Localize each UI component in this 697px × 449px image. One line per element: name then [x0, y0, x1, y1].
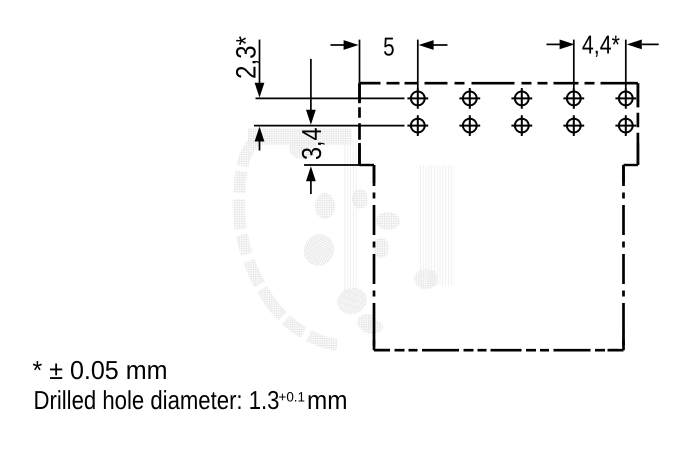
outline left step [360, 164, 375, 166]
svg-text:4,4*: 4,4* [582, 29, 620, 59]
hole C5 R1 [615, 88, 636, 109]
dimension 4,4*: left arrow [547, 40, 575, 50]
left edge extension line [359, 40, 361, 83]
hole extension line col1 [417, 40, 419, 89]
row 1 extension line [256, 97, 405, 99]
hole C5 R2 [615, 115, 636, 136]
outline top edge (phantom dashed) [360, 82, 638, 85]
watermark vertical striping [344, 140, 358, 310]
hole C1 R1 [407, 88, 428, 109]
corner solid reinforcements [360, 83, 638, 350]
watermark blobs [289, 137, 317, 159]
outline lower-left edge [373, 165, 376, 350]
dimension 2,3*: upper arrow (down) [255, 40, 265, 98]
svg-text:+0.1: +0.1 [279, 389, 306, 404]
row 2 extension line [254, 125, 405, 127]
dimension 5: left arrow [331, 40, 359, 50]
outline upper-left edge [358, 83, 361, 165]
hole C4 R2 [563, 115, 584, 136]
svg-text:mm: mm [307, 385, 348, 415]
hole C4 R1 [563, 88, 584, 109]
svg-text:Drilled hole diameter: 1.3: Drilled hole diameter: 1.3 [34, 385, 280, 415]
outline bottom edge (phantom dashed) [374, 349, 624, 352]
outline right step [624, 164, 638, 166]
hole C3 R1 [511, 88, 532, 109]
svg-text:3,4: 3,4 [296, 128, 327, 161]
drilled holes: 5 columns x 2 rows [407, 88, 636, 136]
outline lower-right edge [622, 165, 625, 350]
watermark arc band [248, 129, 352, 146]
svg-text:* ± 0.05 mm: * ± 0.05 mm [33, 355, 168, 385]
svg-text:2,3*: 2,3* [231, 36, 262, 79]
dimension 3,4: lower arrow (up) [306, 166, 316, 194]
watermark connector ghost image [239, 129, 454, 346]
svg-text:5: 5 [383, 31, 395, 61]
hole C2 R2 [459, 115, 480, 136]
dimension 5: right arrow [419, 40, 448, 50]
hole extension line col5 [625, 40, 627, 89]
step extension line [304, 164, 360, 166]
dimension 4,4*: right arrow [627, 40, 659, 50]
hole C2 R1 [459, 88, 480, 109]
hole C3 R2 [511, 115, 532, 136]
dimension 3,4: upper arrow (down) [306, 59, 316, 125]
hole C1 R2 [407, 115, 428, 136]
hole extension line col4 [573, 40, 575, 89]
dimension 2,3*: lower arrow (up) [255, 127, 265, 151]
outline upper-right edge [637, 83, 640, 165]
